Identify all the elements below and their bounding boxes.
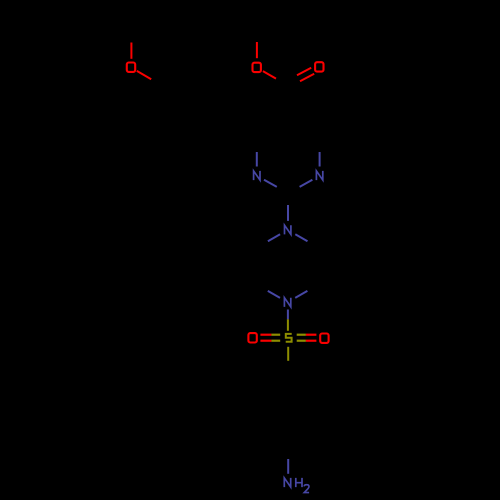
piperazine N bottom label <box>284 298 290 307</box>
wire: O-CH3 half-bond (methoxy) <box>130 43 132 59</box>
wire: Ntop-CE half-bond <box>295 234 307 241</box>
sulfonyl O left label <box>248 333 256 342</box>
wire: ester O-C(=O) half-bond <box>263 71 276 79</box>
wire: Nbot-S olive half-bond <box>287 319 289 331</box>
wire: O-phenyl half-bond (methoxy) <box>137 71 151 79</box>
amine NH2 label: H <box>296 478 302 487</box>
wire: Nbot-CW half-bond <box>268 291 280 298</box>
wire: C=O double bond red halves <box>297 68 311 76</box>
wire: N1-C2 half-bond <box>300 180 313 187</box>
piperazine N top label <box>285 225 291 234</box>
wire: C6-N1 half-bond <box>319 152 321 167</box>
amine NH2 label: subscript 2 <box>304 485 309 493</box>
wire: S=O right double bond red halves <box>306 334 317 336</box>
wire: C4-N3 half-bond <box>256 152 258 167</box>
wire: phenyl-NH2 blue half-bond <box>287 459 289 474</box>
wire: S=O left double bond olive halves <box>271 334 280 336</box>
sulfur S label <box>286 334 292 342</box>
pyrimidine N1 label (right) <box>316 171 322 180</box>
wire: S=O left double bond red halves <box>260 334 271 336</box>
amine NH2 label: N <box>284 478 290 487</box>
wire: C2-Npip half-bond <box>287 205 289 221</box>
wire: Nbot-S blue half-bond <box>287 310 289 320</box>
wire: Ntop-CW half-bond <box>268 234 280 241</box>
methoxy O label <box>127 62 135 71</box>
wire: S-phenyl olive half-bond <box>287 347 289 361</box>
wire: N3-C2 half-bond <box>264 180 277 187</box>
wire: Nbot-CE half-bond <box>295 291 307 298</box>
carbonyl O label <box>315 62 323 71</box>
sulfonyl O right label <box>320 334 328 343</box>
pyrimidine N3 label (left) <box>254 171 260 180</box>
wire: ester O-CH3 half-bond <box>256 42 258 58</box>
wire: S=O right double bond olive halves <box>297 334 306 336</box>
ester O label <box>253 63 261 72</box>
